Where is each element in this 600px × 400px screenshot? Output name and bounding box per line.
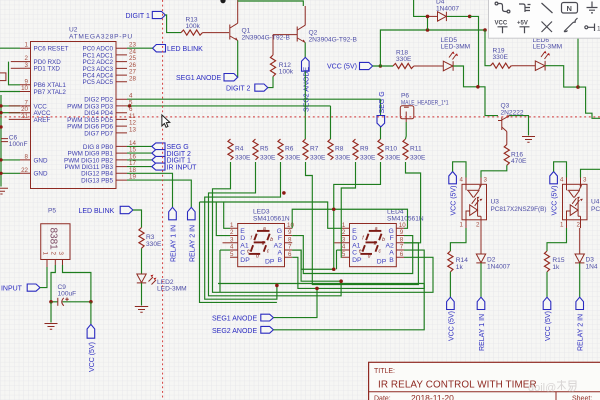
diode D3 1N4007 <box>575 228 598 271</box>
bus DIG2 (pin4) to SEG G riser <box>127 98 381 100</box>
svg-text:3: 3 <box>484 177 488 184</box>
red stub LED3 A1 <box>223 242 231 244</box>
svg-text:F: F <box>390 235 394 242</box>
wire xtal1 <box>9 62 21 85</box>
wire P5 pin2 down <box>51 265 55 302</box>
transistor Q1 <box>230 23 291 41</box>
U2 right pin numbers <box>129 42 136 181</box>
svg-text:2018-11-20: 2018-11-20 <box>411 393 454 400</box>
wire pin23 to LED BLINK <box>127 47 153 49</box>
svg-text:F: F <box>278 235 282 242</box>
resistor R9 <box>353 139 376 162</box>
svg-text:D2: D2 <box>487 257 496 264</box>
wire R13 to Q1 base <box>203 32 230 34</box>
ground bottom-left <box>0 188 8 194</box>
svg-text:LED-3MM: LED-3MM <box>441 44 471 51</box>
wire pin3 txd <box>11 67 20 69</box>
junction dots D4 <box>426 15 430 19</box>
svg-text:VCC (5V): VCC (5V) <box>448 311 455 341</box>
svg-text:R11: R11 <box>410 146 422 153</box>
svg-text:DP: DP <box>377 258 387 265</box>
svg-text:A2: A2 <box>385 242 394 249</box>
svg-text:R9: R9 <box>360 146 369 153</box>
svg-text:100k: 100k <box>186 23 201 30</box>
net flag RELAY 2 IN <box>576 297 585 351</box>
svg-text:SEG2 ANODE: SEG2 ANODE <box>212 328 257 335</box>
svg-text:N: N <box>567 4 572 13</box>
net flag LED BLINK <box>153 45 204 54</box>
resistor R14 1k <box>448 251 468 272</box>
resistor R7 <box>303 139 326 162</box>
transistor Q2 <box>273 6 357 44</box>
svg-text:E: E <box>240 228 245 235</box>
wire LED BLINK to R3 <box>133 210 142 228</box>
svg-text:VCC: VCC <box>495 21 508 27</box>
wire nest n2 R5 route <box>209 162 342 296</box>
wire nest n12 B pins loop <box>292 250 424 288</box>
svg-text:330E: 330E <box>385 155 401 162</box>
svg-text:Q1: Q1 <box>242 28 251 35</box>
resistor R10 <box>378 139 401 162</box>
net flag IR INPUT <box>0 284 40 293</box>
wire nest n10 F pins loop <box>292 236 413 274</box>
wire U4 pin3 up right <box>581 169 600 177</box>
U2 left pin names <box>34 46 69 178</box>
net flag RELAY 2 IN (mid) <box>188 207 197 262</box>
wire R14 to flag <box>449 272 451 297</box>
net label SEG G vertical + flag (down) <box>377 91 386 139</box>
svg-text:VCC (5V): VCC (5V) <box>545 311 552 341</box>
bus DIG3 (pin5) to R8 riser <box>127 105 331 107</box>
svg-text:R4: R4 <box>235 146 244 153</box>
wire vcc flag to U4 pin4 <box>554 162 567 178</box>
D4 cathode vertical <box>470 16 479 86</box>
svg-text:5: 5 <box>342 251 346 258</box>
svg-text:DIGIT 2: DIGIT 2 <box>226 86 250 93</box>
wire Q3 collector to ground <box>510 116 529 136</box>
net flag RELAY 1 IN <box>477 297 486 351</box>
net flag SEG1 ANODE bottom <box>212 314 273 323</box>
svg-text:9: 9 <box>288 229 292 236</box>
svg-text:+5V: +5V <box>517 21 528 27</box>
wire R15 to flag <box>546 272 548 297</box>
svg-text:3: 3 <box>583 177 587 184</box>
junction dots nest <box>275 191 343 290</box>
wire SEG1 anode <box>273 288 317 317</box>
svg-text:330E: 330E <box>335 155 351 162</box>
wire R18 to LED5 <box>414 65 444 67</box>
IR receiver P5 <box>41 208 70 268</box>
svg-text:330E: 330E <box>235 155 251 162</box>
svg-text:g: g <box>262 240 265 246</box>
svg-text:8381: 8381 <box>48 228 59 251</box>
resistor R19 <box>491 48 512 69</box>
svg-text:8: 8 <box>288 236 292 243</box>
supply flag VCC(5V) above U4 <box>550 172 559 216</box>
svg-text:g: g <box>374 240 377 246</box>
svg-text:VCC (5V): VCC (5V) <box>451 186 458 216</box>
svg-text:G: G <box>389 228 394 235</box>
svg-text:1N4007: 1N4007 <box>436 6 459 13</box>
svg-text:470E: 470E <box>511 158 527 165</box>
wire D2 to flag <box>480 263 482 297</box>
svg-text:LED-3MM: LED-3MM <box>157 286 187 293</box>
net flag VCC (5V) mid <box>327 62 373 70</box>
wire to right edge relay2 base <box>578 87 600 118</box>
svg-text:SEG G: SEG G <box>379 91 386 113</box>
svg-text:100uF: 100uF <box>58 291 77 298</box>
svg-text:VCC (5V): VCC (5V) <box>327 64 357 71</box>
wire nest n6 LED3 pin1 feed <box>200 202 231 228</box>
vertical from palette to LED6 junction <box>577 39 579 88</box>
svg-text:PC6 RESET: PC6 RESET <box>34 46 69 53</box>
svg-text:U4: U4 <box>591 199 600 206</box>
mouse cursor <box>162 115 170 127</box>
black dot top edge <box>220 0 225 3</box>
svg-text:U3: U3 <box>491 199 500 206</box>
svg-text:21: 21 <box>21 113 28 120</box>
svg-text:PC8: PC8 <box>591 206 600 213</box>
svg-text:G: G <box>277 228 282 235</box>
wire nest n13 R11 to LED4 A2 <box>404 162 421 243</box>
svg-text:R5: R5 <box>260 146 269 153</box>
svg-text:Sheet:: Sheet: <box>572 396 592 400</box>
svg-text:100nF: 100nF <box>9 141 28 148</box>
svg-text:1: 1 <box>560 222 564 229</box>
wire nest n7 LED4 pin1 feed <box>224 202 342 228</box>
svg-text:1k: 1k <box>552 264 560 271</box>
wire LED5 cathode down to bus <box>453 66 498 116</box>
toolbar palette <box>489 0 600 38</box>
svg-text:PD1 TXD: PD1 TXD <box>34 66 61 73</box>
watermark <box>528 380 576 394</box>
svg-text:1N4: 1N4 <box>586 264 598 271</box>
wire R3 to LED2 <box>141 248 143 274</box>
svg-text:330E: 330E <box>260 155 276 162</box>
svg-text:1: 1 <box>230 222 234 229</box>
capacitor C6 <box>1 134 28 148</box>
net flag RELAY 1 IN (mid) <box>169 207 178 262</box>
svg-text:330E: 330E <box>360 155 376 162</box>
wire D3 to flag <box>579 263 581 297</box>
svg-text:330E: 330E <box>493 54 509 61</box>
optocoupler U3 PC817 <box>460 177 547 229</box>
svg-text:R3: R3 <box>146 234 155 241</box>
diode D2 1N4007 <box>476 228 510 271</box>
svg-text:13: 13 <box>129 126 136 133</box>
svg-text:R15: R15 <box>552 257 564 264</box>
svg-text:2: 2 <box>476 222 480 229</box>
svg-text:RELAY 1 IN: RELAY 1 IN <box>171 225 178 262</box>
left VCC rail wire <box>1 95 20 187</box>
supply flag VCC (5V) bottom left <box>87 324 96 372</box>
wire R16 to U3 pin3 <box>481 165 507 177</box>
svg-text:2: 2 <box>50 252 57 256</box>
display LED4 SM410561N <box>387 209 424 223</box>
wire nest n5 LED3 pin2 feed <box>216 202 230 236</box>
svg-text:D: D <box>240 235 245 242</box>
wire nest n9 branch <box>292 209 334 269</box>
wire pin1 reset <box>0 47 20 49</box>
net flag LED BLINK lower <box>79 206 133 215</box>
wire + ground LED2 <box>141 283 143 306</box>
ground Q3 <box>522 137 535 143</box>
svg-text:LED BLINK: LED BLINK <box>79 208 115 215</box>
resistor R8 <box>328 139 351 162</box>
diode D4 1N4007 <box>414 0 470 30</box>
svg-text:PB7 XTAL2: PB7 XTAL2 <box>34 89 67 96</box>
R19 riser from vcc bus <box>485 30 491 66</box>
svg-text:SM410561N: SM410561N <box>253 216 290 223</box>
svg-text:A: A <box>389 250 394 257</box>
display LED3 SM410561N <box>253 209 290 223</box>
wire pin18 to RELAY 1 IN flag <box>127 173 173 207</box>
svg-text:4: 4 <box>560 177 564 184</box>
svg-text:6: 6 <box>288 251 292 258</box>
svg-text:e: e <box>359 249 362 255</box>
wire VCC flag to R18 and riser <box>373 30 485 66</box>
svg-text:2: 2 <box>577 222 581 229</box>
svg-text:a: a <box>375 226 378 232</box>
svg-text:A: A <box>277 250 282 257</box>
svg-text:330E: 330E <box>285 155 301 162</box>
svg-text:TITLE:: TITLE: <box>374 368 395 375</box>
svg-text:e: e <box>247 249 250 255</box>
wire vcc flag to U3 pin4 <box>453 162 466 178</box>
wire SEG2 anode <box>273 284 424 330</box>
svg-text:7: 7 <box>288 244 292 251</box>
svg-text:DP: DP <box>265 258 275 265</box>
wire nest n16 R7 route <box>306 162 419 285</box>
svg-text:R6: R6 <box>285 146 294 153</box>
net flag IR INPUT <box>152 163 197 171</box>
wire Q1 emitter to SEG1 ANODE <box>237 41 239 78</box>
svg-text:d: d <box>368 254 371 260</box>
supply flag VCC(5V) below R15 <box>543 297 552 341</box>
resistor R15 1k <box>544 251 564 272</box>
svg-text:7: 7 <box>400 244 404 251</box>
svg-text:RELAY 1 IN: RELAY 1 IN <box>479 314 486 351</box>
IC U2 ATMEGA328P-PU <box>31 27 133 189</box>
svg-text:10: 10 <box>21 85 28 92</box>
svg-text:B: B <box>389 257 394 264</box>
resistor R18 <box>393 50 414 69</box>
svg-text:SEG1 ANODE: SEG1 ANODE <box>212 316 257 323</box>
wire digit1 to R13 <box>165 15 181 33</box>
wire nest n3 R6 route <box>205 162 281 299</box>
svg-text:330E: 330E <box>310 155 326 162</box>
svg-text:P5: P5 <box>48 208 56 215</box>
svg-text:28: 28 <box>129 75 136 82</box>
net flag DIGIT 1 top <box>126 11 166 20</box>
svg-text:b: b <box>382 237 385 243</box>
svg-text:IR INPUT: IR INPUT <box>167 164 198 171</box>
wire nest n1 R4 route <box>213 162 434 292</box>
wire nest n8 G pins loop <box>292 209 407 228</box>
svg-text:LED BLINK: LED BLINK <box>167 46 203 53</box>
svg-text:R14: R14 <box>456 257 468 264</box>
svg-text:DIG7 PD7: DIG7 PD7 <box>84 130 113 137</box>
svg-text:P6: P6 <box>401 93 409 100</box>
svg-text:3: 3 <box>342 236 346 243</box>
wire P5 pin3 to VCC <box>63 265 91 302</box>
svg-text:d: d <box>256 254 259 260</box>
svg-text:8: 8 <box>400 236 404 243</box>
net flag SEG2 ANODE (up) <box>302 57 310 71</box>
svg-text:B: B <box>277 257 282 264</box>
junction dots vcc bus <box>426 28 430 32</box>
wire pin19 to RELAY 2 IN flag <box>127 180 191 207</box>
wire nest LED3 C feed <box>220 250 230 292</box>
svg-text:C: C <box>240 250 245 257</box>
svg-text:PC817X2NSZ9F(B): PC817X2NSZ9F(B) <box>491 206 547 213</box>
wire IR input to P5 pin1 <box>40 267 47 288</box>
red stub LED4 A1 <box>334 242 342 244</box>
junction dot VCC <box>379 64 383 68</box>
svg-text:GND: GND <box>34 157 48 164</box>
svg-text:D3: D3 <box>586 257 595 264</box>
svg-text:4: 4 <box>460 177 464 184</box>
resistor R12 <box>270 35 293 77</box>
svg-text:1k: 1k <box>456 264 464 271</box>
svg-text:100k: 100k <box>279 69 294 76</box>
svg-text:b: b <box>270 237 273 243</box>
svg-text:AREF: AREF <box>34 117 51 124</box>
wire to VCC flag <box>90 302 92 325</box>
svg-text:C: C <box>352 250 357 257</box>
junction dots C9 <box>49 300 53 304</box>
crosshair cursor lines <box>0 116 600 118</box>
wire R19 to LED6 <box>511 65 535 67</box>
wire U3 pin1 to R14 <box>450 228 466 251</box>
svg-text:9: 9 <box>400 229 404 236</box>
svg-text:VCC (5V): VCC (5V) <box>89 342 96 372</box>
svg-text:330E: 330E <box>410 155 426 162</box>
wire R12 to DIGIT 2 flag <box>268 77 273 88</box>
resistor R16 470E <box>504 145 527 166</box>
svg-text:LED3: LED3 <box>253 209 270 216</box>
svg-text:3: 3 <box>230 236 234 243</box>
svg-text:DIGIT 1: DIGIT 1 <box>126 13 150 20</box>
svg-text:6: 6 <box>400 251 404 258</box>
wire xtal2 <box>0 91 20 93</box>
junction dot LED6 <box>576 85 580 89</box>
svg-text:PC5 ADC5: PC5 ADC5 <box>83 79 114 86</box>
U2 left pin stubs <box>20 48 31 173</box>
svg-text:IR INPUT: IR INPUT <box>0 286 23 293</box>
supply flag VCC(5V) above U3 <box>449 172 458 216</box>
svg-text:1: 1 <box>25 42 29 49</box>
wire Q2 emitter to SEG2 ANODE <box>304 43 306 58</box>
svg-text:a: a <box>263 226 266 232</box>
wire P6 to R11 <box>405 122 408 139</box>
wire LED6 cathode to junction <box>545 66 578 87</box>
svg-text:1: 1 <box>460 222 464 229</box>
svg-text:Q3: Q3 <box>501 103 510 110</box>
wire nest n19 long rail <box>218 283 424 285</box>
wire nest LED4 C feed <box>337 250 342 269</box>
svg-text:RELAY 2 IN: RELAY 2 IN <box>578 314 585 351</box>
optocoupler U4 PC817 <box>560 177 600 229</box>
wire nest n4 outer left <box>200 202 277 302</box>
supply flag VCC(5V) below R14 <box>447 297 456 341</box>
header P6 MALE_HEADER_1*1 <box>400 93 448 123</box>
svg-text:2: 2 <box>230 229 234 236</box>
LED LED6 LED-3MM <box>533 37 563 71</box>
svg-text:330E: 330E <box>146 241 162 248</box>
red wire segs VCC/AVCC/AREF <box>9 106 20 120</box>
svg-text:4: 4 <box>342 244 346 251</box>
resistor R4 <box>228 139 251 162</box>
net flag SEG2 ANODE bottom <box>212 326 273 335</box>
wire Q1 collector up <box>237 0 239 23</box>
svg-text:R7: R7 <box>310 146 319 153</box>
U2 right pin names <box>64 46 113 185</box>
svg-text:10: 10 <box>287 222 294 229</box>
svg-text:330E: 330E <box>396 56 412 63</box>
wire nest n11 LED3 A row <box>292 250 341 281</box>
resistor R3 330E <box>139 228 162 249</box>
junction dot <box>476 85 480 89</box>
svg-text:22: 22 <box>21 167 28 174</box>
wire + ground under C9 <box>50 302 52 323</box>
svg-text:VCC (5V): VCC (5V) <box>552 186 559 216</box>
svg-text:DP: DP <box>240 257 250 264</box>
net flag SEG1 ANODE <box>176 74 238 83</box>
7seg digit <box>257 230 270 232</box>
svg-text:R10: R10 <box>385 146 397 153</box>
svg-text:5: 5 <box>230 251 234 258</box>
transistor Q3 2N2222 <box>498 103 524 145</box>
resistor R13 <box>181 17 203 36</box>
svg-text:1: 1 <box>342 222 346 229</box>
net flag DIGIT 2 <box>152 150 191 158</box>
svg-text:LED-3MM: LED-3MM <box>533 44 563 51</box>
svg-text:2N3904G-T92-B: 2N3904G-T92-B <box>309 37 358 44</box>
wire pin2 rxd <box>11 61 20 63</box>
svg-text:DIG13 PB5: DIG13 PB5 <box>81 178 113 185</box>
svg-text:4: 4 <box>230 244 234 251</box>
U2 right pin stubs <box>116 48 127 180</box>
resistor R6 <box>278 139 301 162</box>
svg-text:A2: A2 <box>274 242 283 249</box>
svg-text:R8: R8 <box>335 146 344 153</box>
net flag DIGIT 2 <box>226 84 268 93</box>
svg-text:1: 1 <box>42 252 49 256</box>
wire U4 pin1 to R15 <box>547 228 567 251</box>
svg-text:2N3904G-T92-B: 2N3904G-T92-B <box>242 35 291 42</box>
wires pins14-17 to flags <box>127 146 152 166</box>
wire nest n14 R10 route <box>334 162 381 209</box>
svg-text:E: E <box>352 228 357 235</box>
resistor R11 <box>403 139 426 162</box>
top rail Q1-Q2 <box>238 1 304 6</box>
junction dot pin5 <box>128 104 131 107</box>
wire nest n15 R9 route <box>341 162 355 257</box>
svg-text:1N4007: 1N4007 <box>487 264 510 271</box>
LED LED5 LED-3MM <box>441 37 471 71</box>
wire SEG2 ANODE to R7 <box>304 71 306 139</box>
junction dots left rail <box>0 104 3 175</box>
svg-text:GND: GND <box>34 171 48 178</box>
net flag DIGIT 1 <box>152 156 191 164</box>
riser to R8 <box>330 106 332 139</box>
svg-text:Q2: Q2 <box>309 30 318 37</box>
U2 left pin numbers <box>21 42 28 174</box>
svg-text:RELAY 2 IN: RELAY 2 IN <box>190 225 197 262</box>
svg-text:D: D <box>352 235 357 242</box>
svg-text:U2: U2 <box>69 27 78 34</box>
